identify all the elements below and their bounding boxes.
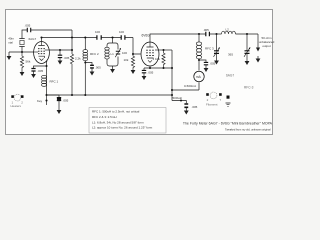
ground (below B+ filter cap) — [184, 111, 189, 115]
svg-text:Key: Key — [37, 99, 43, 103]
svg-text:L2: L2 — [226, 28, 230, 32]
capacitor (cathode bypass 6AG7) — [31, 69, 43, 75]
resistor R3 10k (grid) — [124, 54, 135, 70]
tube U2 6V6G — [141, 33, 159, 66]
wire tank drop — [112, 38, 114, 44]
inductor RFC 1 — [42, 75, 59, 86]
node grid resistor tap — [132, 53, 134, 55]
wire screen 6V6 — [159, 49, 172, 51]
node x60 y50 — [59, 49, 61, 51]
tank circuit L1 + variable cap — [105, 43, 128, 66]
wire grid bus — [9, 51, 34, 53]
wire left B+ rail — [42, 37, 134, 39]
svg-text:.005: .005 — [192, 105, 198, 109]
svg-text:10k: 10k — [155, 57, 160, 61]
wire RFC2 down to rail — [84, 61, 86, 96]
svg-text:500vdc: 500vdc — [173, 96, 183, 100]
svg-text:output: output — [262, 44, 271, 48]
node rail x84 — [84, 94, 86, 96]
ground (output return) — [256, 56, 261, 63]
capacitor (B+ filter electrolytic) — [184, 104, 197, 111]
capacitor (B+ bypass) — [199, 60, 216, 68]
inductor L1 — [105, 47, 109, 50]
inductor L2 — [222, 28, 236, 35]
svg-text:2.2k: 2.2k — [75, 57, 81, 61]
node screen/resistor — [162, 49, 164, 51]
svg-text:.005: .005 — [63, 98, 69, 102]
svg-text:0-500mA: 0-500mA — [184, 84, 196, 88]
wire top feedback loop — [22, 30, 72, 39]
svg-text:6V6G: 6V6G — [142, 33, 151, 37]
svg-text:.005: .005 — [37, 69, 43, 73]
svg-text:Heaters: Heaters — [11, 104, 22, 108]
node x172 y90 — [171, 89, 173, 91]
ground (below key cap) — [57, 110, 62, 114]
wire cathode 6AG7 down — [46, 61, 49, 96]
wire crystal to grid bus — [21, 47, 23, 53]
schematic frame — [6, 10, 273, 135]
capacitor .01 (key bypass) — [57, 98, 69, 110]
svg-text:.005: .005 — [203, 28, 209, 32]
node key rail junction — [45, 94, 47, 96]
notes box — [89, 108, 166, 134]
wire output drop — [257, 34, 259, 48]
node rail x85 — [84, 36, 86, 38]
svg-text:.005: .005 — [64, 56, 70, 60]
resistor R1 56k (grid leak) — [20, 52, 30, 70]
svg-text:.005: .005 — [95, 66, 101, 70]
svg-text:L2: approx 10 turns No. 26 aro: L2: approx 10 turns No. 26 around 1.25" … — [92, 126, 153, 130]
ground (below VC1) — [214, 61, 219, 65]
svg-text:xtal: xtal — [8, 41, 13, 45]
wire plate 6V6 to rail — [150, 34, 199, 42]
wire key bypass branch — [47, 95, 60, 98]
label output — [259, 36, 275, 48]
svg-text:L1: L1 — [111, 52, 115, 56]
svg-text:.005: .005 — [25, 24, 31, 28]
wire grid drop 6V6 — [133, 38, 141, 55]
variable capacitor VC2 (antenna load) — [228, 34, 250, 61]
ground (tank) — [110, 69, 115, 73]
jack J1 key jack — [11, 94, 24, 108]
svg-text:RFC 2: RFC 2 — [90, 52, 99, 56]
capacitor .005 (feedback) — [25, 24, 31, 33]
wire cathode bus 6V6 — [144, 66, 172, 68]
svg-text:6AG7: 6AG7 — [226, 74, 234, 78]
tube U1 6AG7 — [29, 37, 50, 64]
ground (below 6V6 cathode cap) — [142, 76, 147, 80]
capacitor .005 (plate blocking) — [199, 28, 217, 36]
svg-text:RFC 3: RFC 3 — [205, 47, 214, 51]
svg-text:Tweaked from my old, unknown o: Tweaked from my old, unknown original — [225, 128, 271, 132]
node VC1 tap — [215, 33, 217, 35]
svg-text:100: 100 — [119, 30, 124, 34]
node cathode junction — [45, 65, 47, 67]
wire L2 to output — [236, 33, 259, 35]
wire RFC3 to meter — [198, 59, 200, 71]
capacitor (decoupling) — [85, 63, 101, 72]
node cathode/screen resistor — [162, 67, 164, 69]
svg-text:L1: 6.8uH, 34t, No 28 around 5: L1: 6.8uH, 34t, No 28 around 5/8" form — [92, 120, 144, 124]
meter M1 mA — [184, 71, 204, 88]
ground (below cathode cap) — [31, 74, 36, 78]
node plate/rail x72 — [71, 36, 73, 38]
wire rail to L2 — [217, 33, 222, 35]
svg-text:10k: 10k — [124, 58, 129, 62]
node cathode 6V6 — [149, 67, 151, 69]
node rail x172 — [171, 94, 173, 96]
capacitor (screen bypass) — [58, 50, 70, 61]
svg-text:56k: 56k — [26, 60, 31, 64]
node plate rail / RFC3 — [198, 33, 200, 35]
svg-text:Filament: Filament — [206, 103, 218, 107]
crystal Y1 40m xtal — [8, 37, 25, 47]
ground (below grid resistor) — [131, 70, 136, 74]
wire key stub — [46, 95, 48, 105]
node tank top — [111, 36, 113, 38]
node rail x72 — [71, 94, 73, 96]
svg-text:100: 100 — [122, 51, 127, 55]
ground (below decoupling cap) — [90, 72, 95, 76]
svg-text:RFC 1: RFC 1 — [50, 79, 59, 83]
wire screen bus y50 — [49, 50, 72, 54]
inductor RFC 2 — [83, 38, 99, 61]
jack J2 filament — [206, 92, 231, 107]
ground (below VC2) — [245, 61, 250, 65]
capacitor C 100 (coupling 1) — [95, 30, 101, 40]
wire plate column x72 — [71, 30, 73, 50]
variable capacitor VC1 (plate tune) — [214, 34, 220, 61]
inductor RFC 3 — [196, 34, 214, 59]
wire meter to rail — [198, 82, 200, 90]
output arrow terminal — [256, 48, 260, 52]
svg-text:365: 365 — [228, 53, 233, 57]
node x85 y62.5 — [84, 61, 86, 63]
node VC2 tap — [246, 33, 248, 35]
wire plate 6AG7 up to rail — [41, 38, 43, 42]
node grid junction — [21, 51, 23, 53]
svg-text:.005: .005 — [148, 71, 154, 75]
resistor R4 10k (screen) — [155, 50, 165, 68]
node key tap — [45, 99, 47, 101]
ground (below 56k) — [20, 70, 25, 76]
node column/cathode — [171, 67, 173, 69]
svg-text:The Forty Meter 6AG7 - 6V6G "M: The Forty Meter 6AG7 - 6V6G "Mini Barnbr… — [183, 122, 273, 126]
svg-text:RFC 1: 500uH to 2.5mH, not cri: RFC 1: 500uH to 2.5mH, not critical — [92, 110, 140, 114]
node x72 y50 — [71, 49, 73, 51]
capacitor C 100 (coupling 2) — [119, 30, 125, 40]
capacitor (cathode bypass 6V6) — [142, 68, 154, 76]
ground (below screen cap) — [58, 61, 63, 65]
node filter tap — [180, 99, 182, 101]
svg-text:RFC 2 & 3: 2.5mH: RFC 2 & 3: 2.5mH — [92, 115, 117, 119]
wire meter return rail — [172, 89, 199, 91]
svg-text:6AG7: 6AG7 — [29, 37, 37, 41]
wire cathode column down — [171, 50, 173, 101]
ground (left of grid) — [7, 52, 12, 60]
wire bottom rail (keyed) — [47, 94, 173, 96]
node RFC3 bypass tap — [198, 59, 200, 61]
wire B+ filter branch — [172, 101, 186, 104]
wire cathode bypass branch — [34, 66, 47, 68]
svg-text:RFC-3: RFC-3 — [244, 86, 254, 90]
svg-text:.005: .005 — [210, 62, 216, 66]
resistor R2 2.2k (dropping) — [70, 54, 81, 95]
svg-text:100: 100 — [95, 30, 100, 34]
variable capacitor (tank trimmer) — [116, 51, 120, 54]
wire tank bottom to ground — [112, 66, 114, 69]
ground (below B+ bypass cap) — [204, 68, 209, 72]
